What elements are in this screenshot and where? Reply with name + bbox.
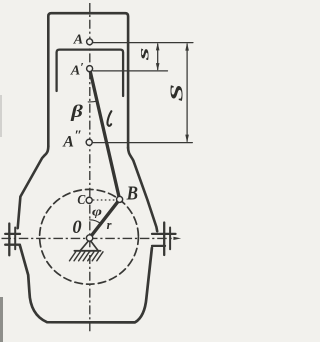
arrow s top	[156, 43, 160, 51]
left bearing ticks	[8, 224, 10, 256]
svg-text:A: A	[73, 33, 83, 48]
pivot support triangle at O	[80, 240, 98, 251]
right crankshaft bearing flange bars	[152, 234, 176, 246]
svg-text:r: r	[107, 218, 112, 232]
svg-text:φ: φ	[92, 205, 102, 218]
crank circle (dashed)	[40, 189, 139, 284]
left crankshaft bearing flange bars	[5, 234, 20, 245]
node O	[86, 235, 92, 241]
svg-text:B: B	[126, 182, 138, 205]
ground hatching	[70, 252, 104, 261]
arrowheads	[156, 43, 189, 240]
node A''	[86, 139, 92, 145]
svg-text:C: C	[77, 191, 85, 207]
node circles	[86, 39, 123, 241]
left wall flare to crankcase	[18, 146, 49, 228]
right wall flare to crankcase	[128, 148, 157, 232]
dimension line s	[157, 44, 159, 70]
labels	[62, 33, 187, 239]
cylinder head outer rectangle and upper walls	[48, 13, 128, 148]
dimension line S	[186, 44, 188, 141]
arrow S top	[185, 43, 189, 51]
scan edge artifacts	[0, 95, 2, 137]
svg-text:0: 0	[72, 218, 81, 238]
node B	[117, 196, 123, 202]
connecting rod l from A' to B	[90, 69, 120, 200]
svg-text:β: β	[70, 102, 83, 122]
label l (cursive ell path)	[107, 111, 111, 126]
node C	[86, 197, 92, 203]
dimension extension line at A level	[93, 42, 193, 44]
right bearing ticks	[163, 223, 165, 256]
svg-text:S: S	[166, 84, 186, 102]
dimension extension line at A' level	[93, 70, 168, 72]
svg-text:s: s	[135, 47, 153, 61]
inner cylinder liner	[57, 50, 124, 96]
angle arc beta	[88, 101, 98, 102]
arrow s bottom	[156, 63, 160, 71]
horizontal crankshaft axis	[2, 237, 174, 239]
node A	[87, 39, 93, 45]
crank r from O to B	[90, 199, 120, 238]
angle arc phi	[90, 220, 102, 224]
dimension extension line at A'' level	[93, 142, 192, 144]
node A'	[87, 66, 93, 72]
crankcase lower outline	[20, 246, 152, 323]
arrow S bottom	[185, 135, 189, 143]
support base line	[74, 250, 100, 252]
dotted line C to B	[93, 199, 116, 201]
arrow axis right end	[173, 237, 181, 240]
vertical centerline	[89, 3, 91, 332]
